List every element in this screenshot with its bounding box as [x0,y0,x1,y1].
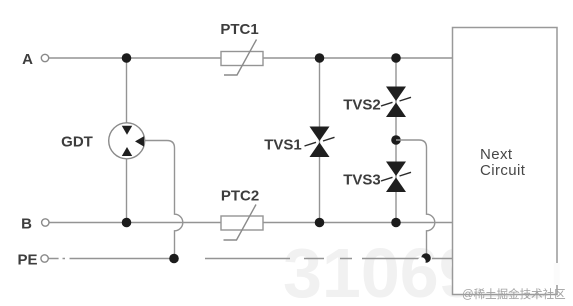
node on PE (GDT earth) [169,254,179,264]
node on PE (TVS earth) [421,253,431,263]
wire line B [49,222,452,224]
TVS2 [381,87,411,118]
wire GDT branch from node on A [126,58,128,123]
wire TVS2/TVS3 branch [395,58,397,223]
PTC1 [221,40,263,76]
node B-TVS1 [315,218,325,228]
wire TVS midpoint to PE (with hop over B) [396,140,435,259]
svg-text:PTC1: PTC1 [220,21,258,38]
svg-text:Circuit: Circuit [480,162,526,179]
terminal B [42,219,49,226]
node A-TVS2 [391,53,401,63]
svg-text:Next: Next [480,146,513,163]
TVS1 [305,127,335,158]
watermark cut over node [417,257,425,265]
wire line A [49,57,453,59]
terminal PE [41,255,48,262]
svg-text:GDT: GDT [61,134,93,151]
node A-GDT [122,53,132,63]
node B-TVS3 [391,218,401,228]
node A-TVS1 [315,53,325,63]
svg-text:@稀土掘金技术社区: @稀土掘金技术社区 [462,287,566,301]
svg-text:B: B [21,216,32,233]
GDT U1 [109,123,145,159]
next circuit block [453,28,558,295]
svg-text:TVS1: TVS1 [264,137,302,154]
wire line PE (dash-dot) [49,258,453,260]
svg-text:TVS2: TVS2 [343,97,381,114]
node B-GDT [122,218,132,228]
wire GDT to line B [126,159,128,223]
wire TVS1 branch [319,58,321,223]
node TVS2-TVS3 midpoint [391,135,401,145]
svg-text:PTC2: PTC2 [221,188,259,205]
svg-text:TVS3: TVS3 [343,172,381,189]
PTC2 [221,205,263,241]
svg-text:PE: PE [17,252,37,269]
watermark cut over block edge [554,263,560,285]
svg-text:A: A [22,51,33,68]
TVS3 [381,162,411,193]
wire GDT third electrode to PE (with hop over B) [144,141,183,259]
terminal A [41,54,48,61]
